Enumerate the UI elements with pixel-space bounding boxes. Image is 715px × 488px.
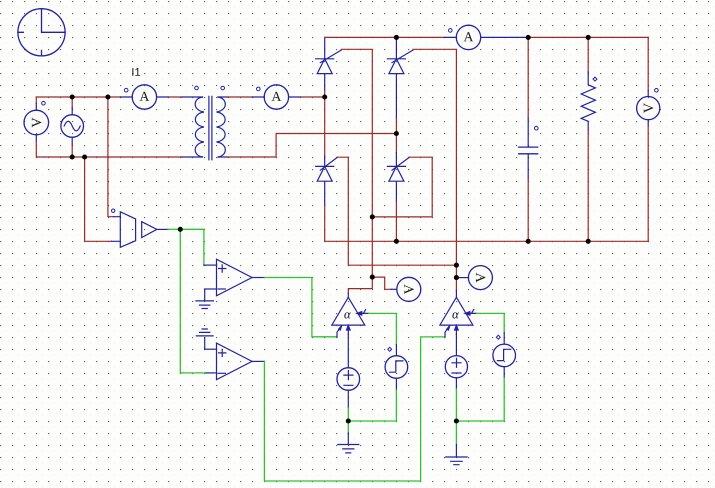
dc source VDC2 bbox=[445, 356, 467, 389]
probe VP2 bbox=[456, 266, 492, 290]
capacitor C1 branch top bbox=[527, 37, 529, 118]
wire positive rail right bbox=[528, 36, 648, 38]
wire T4 gate net bbox=[372, 157, 432, 217]
ground G3 bbox=[338, 421, 359, 453]
wire T3 anode to negative rail bbox=[324, 205, 326, 241]
wire resistor to negative rail bbox=[587, 131, 589, 242]
alpha controller AC1 bbox=[332, 293, 369, 368]
wire gate net down to alpha1 output node bbox=[371, 217, 373, 277]
wire T1 gate net bbox=[341, 49, 372, 217]
wire alpha1 output node to apex bbox=[348, 277, 372, 293]
voltmeter V2 branch bbox=[647, 37, 649, 90]
wire VST2 to ground node bbox=[456, 378, 504, 421]
ac source VS bbox=[61, 97, 84, 157]
wire A2 leads bbox=[252, 96, 300, 98]
wire xfmr primary bottom lead bbox=[182, 156, 203, 158]
dc source VDC1 bbox=[337, 368, 360, 408]
wire T3 gate net bbox=[337, 157, 456, 265]
ammeter A1 bbox=[124, 85, 156, 109]
probe VP1 bbox=[391, 277, 421, 301]
wire node A down to T3 bbox=[324, 97, 326, 156]
transformer TX1 bbox=[195, 86, 228, 160]
wire sensor plus drop bbox=[108, 97, 114, 217]
voltmeter V1 bbox=[24, 97, 49, 157]
ammeter A2 bbox=[257, 85, 289, 109]
comparator U2 bbox=[205, 343, 265, 380]
wire A1 leads bbox=[121, 96, 203, 98]
wire sensor output to node S bbox=[168, 228, 180, 230]
wire node S down to comparator U2 minus bbox=[180, 229, 206, 373]
wire negative rail bbox=[325, 240, 649, 242]
wire T2 anode to node B bbox=[395, 118, 397, 153]
capacitor C1 bbox=[519, 118, 538, 179]
wire positive rail bbox=[325, 36, 445, 38]
wire node S to comparator U1 plus bbox=[180, 229, 204, 265]
wire alpha1 sync green bbox=[369, 313, 397, 344]
wire T2 gate net bbox=[413, 49, 456, 265]
wire secondary top bbox=[228, 96, 252, 98]
wire sensor minus drop bbox=[85, 157, 112, 241]
wire secondary bottom to node B bbox=[228, 134, 396, 158]
ground G4 bbox=[446, 421, 467, 465]
wire alpha2 sync green bbox=[477, 313, 505, 332]
wire voltmeter V2 to negative rail bbox=[647, 126, 649, 241]
ammeter A3 bbox=[449, 25, 481, 49]
step source VST2 bbox=[493, 333, 516, 379]
resistor R1 bbox=[581, 72, 597, 131]
wire VDC2 to ground node bbox=[455, 389, 457, 421]
thyristor T4 bbox=[387, 153, 409, 203]
wire T1 anode to node A bbox=[324, 90, 326, 97]
wire top source rail bbox=[36, 96, 182, 98]
thyristor T3 bbox=[316, 156, 337, 205]
comparator U1 bbox=[204, 259, 265, 296]
wire A3 leads bbox=[445, 36, 529, 38]
wire U2 output to alpha2 enable bbox=[264, 337, 445, 481]
ground G1 at U1 minus bbox=[196, 289, 214, 309]
alpha controller AC2 bbox=[440, 291, 477, 356]
voltage sensor VSEN1 bbox=[112, 209, 169, 247]
wire T4 anode to negative rail bbox=[395, 202, 397, 241]
wire capacitor to negative rail bbox=[527, 179, 529, 241]
step source VST1 bbox=[385, 345, 408, 391]
ground G2 inverted at U2 plus bbox=[196, 329, 213, 349]
wire U1 output to alpha1 enable bbox=[264, 278, 337, 337]
wire alpha1 node to probe VP1 bbox=[372, 277, 391, 289]
thyristor T2 bbox=[387, 37, 413, 118]
wire bottom source rail bbox=[44, 156, 182, 158]
thyristor T1 bbox=[316, 37, 342, 90]
resistor R1 branch top bbox=[587, 37, 589, 72]
simulation clock icon bbox=[18, 9, 65, 56]
wire VST1 to ground node bbox=[348, 390, 396, 421]
wire A2 to bridge node A bbox=[301, 96, 325, 98]
wire VDC1 to ground node bbox=[347, 408, 349, 421]
wire alpha2 output node chain bbox=[455, 265, 457, 290]
voltmeter V2 bbox=[637, 89, 660, 127]
label I1 bbox=[132, 68, 140, 76]
